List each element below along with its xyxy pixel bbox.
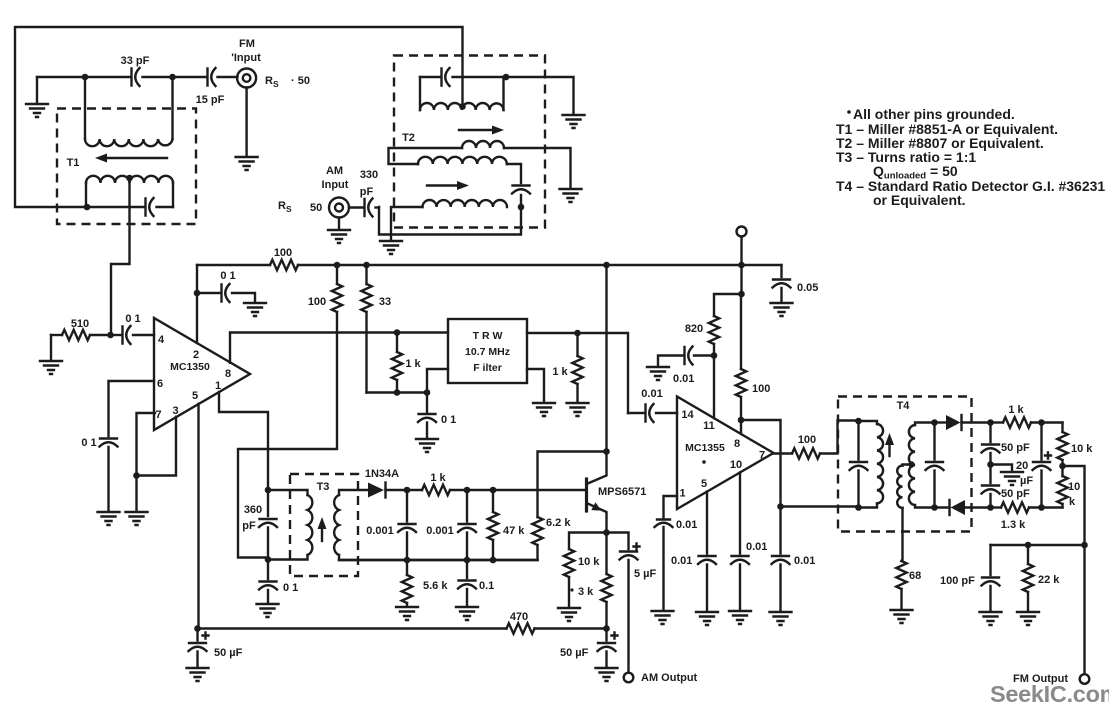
ground (TRW bias bypass) <box>416 439 438 452</box>
ground (0.1 detector) <box>456 607 478 620</box>
node: rail junction A <box>334 262 341 269</box>
wire: AGC bias rail <box>367 391 428 393</box>
wire: T4 secondary top lead <box>915 423 935 426</box>
ground (T4 return bypass) <box>770 612 792 625</box>
ground (T2 middle) <box>560 189 582 202</box>
node: junction pins 3+7 <box>133 472 140 479</box>
svg-text:1.3 k: 1.3 k <box>1001 519 1026 531</box>
svg-text:33 pF: 33 pF <box>121 55 150 67</box>
capacitor (series in T1 primary) <box>146 198 154 216</box>
svg-text:6: 6 <box>157 378 163 390</box>
svg-text:AM: AM <box>326 165 343 177</box>
resistor 100 (output series) <box>792 421 859 459</box>
resistor 3 k <box>570 533 611 629</box>
wire: AM jack to 330 pF <box>349 206 379 208</box>
svg-text:50 µF: 50 µF <box>560 647 589 659</box>
node: junction 3k bottom / 470 / 50uF <box>603 625 610 632</box>
capacitor (parallel with T2 primary) <box>442 68 450 86</box>
svg-text:5: 5 <box>701 478 707 490</box>
wire: T2 coupling upper right to ground <box>504 148 571 188</box>
wire: T1 primary legs <box>86 183 173 207</box>
node: junction T2 primary top right <box>503 74 510 81</box>
node: junction 22k <box>1025 542 1032 549</box>
wire: FM jack to ground <box>245 88 247 157</box>
svg-text:7: 7 <box>759 450 765 462</box>
svg-text:100 pF: 100 pF <box>940 575 975 587</box>
resistor 510 <box>51 318 111 340</box>
node: junction 0.1 <box>464 557 471 564</box>
wire: T3 secondary top lead to diode <box>339 490 368 495</box>
transformer T2 dashed box <box>394 56 545 228</box>
resistor 1 k (detector top) <box>991 404 1063 428</box>
capacitor 0.01 (pin 10) <box>731 541 767 610</box>
capacitor 0 1 (TRW bias bypass) <box>418 393 456 439</box>
svg-text:47 k: 47 k <box>503 525 525 537</box>
svg-text:10 k: 10 k <box>1071 443 1093 455</box>
svg-text:T2: T2 <box>402 132 415 144</box>
svg-text:22 k: 22 k <box>1038 574 1060 586</box>
wire: T1 secondary legs <box>85 77 173 139</box>
wire: to T4 primary bottom <box>781 505 859 507</box>
svg-text:pF: pF <box>242 520 256 532</box>
wire: pin 6 MC1350 to 0.1 <box>109 381 155 436</box>
capacitor (T4 primary tuning) <box>850 421 868 508</box>
wire: supply to transistor collector node <box>605 265 607 452</box>
resistor 5.6 k <box>402 560 449 606</box>
wire: 10k centre to FM output line <box>1063 466 1085 545</box>
diode D3 (ratio detector bottom) <box>935 500 991 515</box>
resistor 1 k (TRW input shunt) <box>392 333 422 393</box>
svg-text:5: 5 <box>192 390 198 402</box>
ground (5.6k) <box>396 607 418 620</box>
diode D1 1N34A <box>365 468 407 498</box>
wire: T4 primary top lead <box>859 421 878 424</box>
wire: pins 3+7 down <box>135 476 137 512</box>
inductor: T4 primary winding <box>877 424 883 504</box>
node: junction 10k centre <box>1059 463 1066 470</box>
wire: pin 8 to TRW filter input <box>230 333 448 363</box>
capacitor 0.05 (supply bypass) <box>773 265 819 302</box>
ground (T2 top) <box>563 115 585 128</box>
node: junction TRW input / 1k <box>394 329 401 336</box>
svg-text:50 µF: 50 µF <box>214 647 243 659</box>
node: junction 360 pF bottom <box>265 556 272 563</box>
ground (AM jack) <box>328 230 350 243</box>
node: collector node <box>603 448 610 455</box>
capacitor 0.001 (first) <box>366 490 416 560</box>
wire: TRW lower-right pin to ground <box>527 369 544 402</box>
inductor: T1 primary winding <box>86 176 173 183</box>
svg-text:10: 10 <box>1068 481 1080 493</box>
wire: T2 top to ground <box>506 77 574 114</box>
svg-text:330: 330 <box>360 169 378 181</box>
svg-text:0 1: 0 1 <box>125 313 140 325</box>
node: junction secondary cap bottom <box>931 504 938 511</box>
resistor 10 k (lower) <box>1057 466 1080 508</box>
svg-text:0.1: 0.1 <box>479 580 494 592</box>
wire: AM jack to ground <box>338 218 340 230</box>
ground (100 pF) <box>980 612 1002 625</box>
svg-text:33: 33 <box>379 296 391 308</box>
ground (pins 3+7) <box>126 512 148 525</box>
svg-text:11: 11 <box>703 420 715 432</box>
svg-text:1: 1 <box>679 488 685 500</box>
node: junction 0.1 / TRW lower pin <box>424 389 431 396</box>
node: junction T4 primary bottom <box>855 504 862 511</box>
arrow: T2 upper tuning arrow (right) <box>459 126 504 135</box>
svg-text:0 1: 0 1 <box>441 414 456 426</box>
capacitor 0.01 (pin 1) <box>655 519 698 610</box>
ground (pin 2 decoupling) <box>244 303 266 316</box>
inductor: T2 coupling winding upper <box>462 141 504 148</box>
svg-text:MPS6571: MPS6571 <box>598 486 646 498</box>
node: junction 5.6k <box>404 557 411 564</box>
ground (20uF centre) <box>991 460 1034 487</box>
capacitor 0.01 (pin 14 coupling) <box>628 388 677 422</box>
capacitor (T4 secondary tuning) <box>926 423 944 508</box>
svg-text:1: 1 <box>215 380 221 392</box>
wire: pin 7 output <box>774 452 793 454</box>
capacitor 0.01 (pin 5) <box>671 555 716 611</box>
svg-text:µF: µF <box>1020 475 1033 487</box>
wire: T2 secondary left leg to ground <box>391 207 423 240</box>
svg-text:510: 510 <box>71 318 89 330</box>
inductor: T2 coupling winding lower <box>418 157 507 164</box>
node: junction pin2/0.1 decoupling <box>194 290 201 297</box>
wire: pin 10 stub <box>739 472 741 553</box>
svg-text:0.01: 0.01 <box>673 373 694 385</box>
node: junction 510 / 0.1 / T1 tap <box>107 332 114 339</box>
wire: to TRW lower-left pin <box>427 369 448 393</box>
wire: pin 2 stub to supply rail <box>196 265 198 343</box>
node: emitter node <box>603 529 610 536</box>
wire: detector to base <box>467 489 587 491</box>
wire: pin 8 stub <box>740 420 742 434</box>
ground (below 360 pF) <box>257 604 279 617</box>
svg-text:8: 8 <box>225 368 231 380</box>
svg-text:1 k: 1 k <box>1008 404 1024 416</box>
diode D2 (ratio detector top) <box>935 415 991 430</box>
resistor 820 <box>685 294 742 356</box>
wire: AM feed loop under T2 <box>379 207 521 235</box>
capacitor 50 uF (right) <box>560 629 618 668</box>
svg-text:0.001: 0.001 <box>426 525 454 537</box>
resistor 22 k <box>1023 545 1060 611</box>
connector: FM Output <box>1013 673 1089 685</box>
node: junction T4 primary top <box>855 418 862 425</box>
wire: TRW output <box>527 333 628 413</box>
capacitor 330 pF <box>365 199 373 217</box>
ground (FM jack) <box>236 157 258 170</box>
capacitor (T2 secondary trimmer) <box>512 186 530 194</box>
capacitor 50 pF (lower) <box>982 465 1031 508</box>
wire: FM output line down <box>1083 545 1085 674</box>
transformer T4 dashed box <box>838 397 972 532</box>
arrow: T1 tuning arrow (left) <box>95 154 167 163</box>
svg-text:10.7 MHz: 10.7 MHz <box>465 346 510 358</box>
svg-text:7: 7 <box>155 409 161 421</box>
node: junction secondary cap top <box>931 419 938 426</box>
node: junction T4 return / 0.01 <box>777 503 784 510</box>
filter block TRW 10.7 MHz <box>448 319 527 383</box>
wire: pin 5 MC1350 down <box>197 404 199 629</box>
svg-text:MC1355: MC1355 <box>685 442 725 454</box>
svg-text:3: 3 <box>172 405 178 417</box>
svg-text:5.6 k: 5.6 k <box>423 580 448 592</box>
capacitor 0 1 (pin 6) <box>81 437 117 511</box>
resistor 33 <box>361 265 391 393</box>
wire: T4 secondary bottom lead <box>915 505 935 508</box>
connector: AM Input jack <box>278 165 378 218</box>
ground (pin 1) <box>652 611 674 624</box>
wire: T4 primary bottom lead <box>859 504 878 508</box>
svg-text:1 k: 1 k <box>430 472 446 484</box>
node: junction detector top <box>987 419 994 426</box>
arrow: T2 lower tuning arrow (right) <box>427 181 469 190</box>
resistor 470 <box>507 611 535 634</box>
svg-text:6.2 k: 6.2 k <box>546 517 571 529</box>
node: junction 20uF top <box>1038 419 1045 426</box>
svg-text:100: 100 <box>308 296 326 308</box>
node: T2 primary centre tap <box>459 103 466 110</box>
ground (pin 5) <box>696 612 718 625</box>
svg-text:0.01: 0.01 <box>746 541 767 553</box>
ground (0.05) <box>771 303 793 316</box>
svg-text:2: 2 <box>193 349 199 361</box>
wire: emitter to 10k <box>569 533 607 550</box>
svg-text:820: 820 <box>685 323 703 335</box>
svg-text:MC1350: MC1350 <box>170 361 210 373</box>
inductor: T4 secondary winding <box>909 425 915 505</box>
capacitor 50 uF (left) <box>189 629 243 668</box>
resistor 100 (pin 8 feed) <box>736 294 771 420</box>
svg-text:100: 100 <box>798 434 816 446</box>
svg-text:T1: T1 <box>67 157 80 169</box>
watermark: SeekIC.com <box>990 681 1109 707</box>
capacitor 50 pF (upper) <box>982 423 1031 465</box>
terminal: V+ supply <box>737 227 747 266</box>
svg-text:50 pF: 50 pF <box>1001 488 1030 500</box>
svg-text:8: 8 <box>734 438 740 450</box>
ground (pin 11 bypass) <box>647 367 669 380</box>
resistor 6.2 k <box>532 517 571 560</box>
resistor 100 (supply rail series) <box>270 247 298 270</box>
op-amp U2 MC1355 <box>677 397 774 510</box>
ground (510 input) <box>40 335 62 374</box>
node: junction 20uF bottom <box>1038 504 1045 511</box>
svg-text:T R W: T R W <box>473 330 503 342</box>
capacitor 0.01 (pin 11 bypass) <box>658 347 714 386</box>
wire: pin 1 stub <box>664 496 678 518</box>
svg-text:50: 50 <box>310 202 322 214</box>
wire: collector node to 6.2k <box>538 452 607 518</box>
svg-text:or Equivalent.: or Equivalent. <box>873 192 966 208</box>
svg-text:470: 470 <box>510 611 528 623</box>
wire: T2 coupling lower right to trimmer <box>507 164 521 183</box>
resistor 10 k (emitter) <box>564 549 600 607</box>
svg-text:· 50: · 50 <box>291 75 310 87</box>
wire: emitter to 5 uF <box>607 533 629 550</box>
node: junction T1 primary left leg <box>84 204 91 211</box>
node: junction 50pF centre <box>987 461 994 468</box>
node: junction FM output line <box>1081 542 1088 549</box>
svg-text:AM Output: AM Output <box>641 672 698 684</box>
wire: T2 coupling left link <box>389 148 463 164</box>
svg-text:0.001: 0.001 <box>366 525 394 537</box>
svg-text:1 k: 1 k <box>405 358 421 370</box>
svg-text:100: 100 <box>752 383 770 395</box>
svg-text:0.01: 0.01 <box>641 388 662 400</box>
svg-text:k: k <box>1069 496 1076 508</box>
inductor: T2 primary winding <box>420 103 504 110</box>
connector: AM Output <box>624 672 698 684</box>
node: junction detector bottom <box>987 504 994 511</box>
svg-text:10 k: 10 k <box>578 556 600 568</box>
node: junction 360 pF top / T3 <box>265 487 272 494</box>
inductor: T3 primary winding <box>308 495 313 555</box>
svg-text:100: 100 <box>274 247 292 259</box>
capacitor 33 pF <box>121 55 150 86</box>
wire: T1 primary bottom with series capacitor <box>87 206 173 208</box>
wire: T2 primary top link <box>420 76 506 78</box>
svg-text:3 k: 3 k <box>578 586 594 598</box>
node: junction on FM rail left <box>82 74 89 81</box>
capacitor 0 1 (below 360 pF) <box>259 560 298 604</box>
wire: pin 7 MC1350 to ground <box>137 413 156 476</box>
svg-text:0.01: 0.01 <box>794 555 815 567</box>
transformer T3 dashed box <box>290 474 358 576</box>
node: rail junction B <box>363 262 370 269</box>
svg-text:FM: FM <box>239 38 255 50</box>
svg-text:0 1: 0 1 <box>283 582 298 594</box>
wire: detector ground rail <box>339 559 538 561</box>
svg-text:T3: T3 <box>317 481 330 493</box>
svg-text:10: 10 <box>730 459 742 471</box>
svg-text:0 1: 0 1 <box>220 270 235 282</box>
svg-text:14: 14 <box>681 409 694 421</box>
wire: pin 8 node to T4 return <box>741 420 781 507</box>
wire: 100 load return to 360 pF node <box>238 312 337 558</box>
inductor: T1 secondary winding <box>85 139 173 146</box>
resistor 68 <box>896 561 921 609</box>
transistor Q1 MPS6571 <box>587 452 647 533</box>
ground (TRW case) <box>533 403 555 416</box>
node: junction pin 8 <box>738 417 745 424</box>
node: junction 47k top <box>490 487 497 494</box>
wire: T3 secondary bottom to detector rail <box>339 555 538 560</box>
inductor: T4 tertiary winding <box>897 466 902 508</box>
ground (left of 33 pF) <box>26 77 48 117</box>
svg-text:pF: pF <box>360 186 374 198</box>
svg-text:0 1: 0 1 <box>81 437 96 449</box>
node: T2 secondary right junction <box>518 204 525 211</box>
ground (TRW output load) <box>567 403 589 416</box>
wire: FM input rail <box>37 76 238 78</box>
connector: FM Input jack <box>231 38 310 89</box>
node: T1 primary centre tap <box>126 175 133 182</box>
wire: AGC bottom rail <box>198 627 607 629</box>
svg-text:0.01: 0.01 <box>671 555 692 567</box>
wire: pin 3 MC1350 <box>137 417 177 476</box>
svg-text:0.05: 0.05 <box>797 282 818 294</box>
svg-text:15 pF: 15 pF <box>196 94 225 106</box>
node: rail junction at collector feed <box>603 262 610 269</box>
wire: pin 5 stub <box>706 492 708 554</box>
ground (50uF left) <box>187 668 209 681</box>
capacitor 5 uF (AM output coupling) <box>620 544 657 673</box>
svg-text:F ilter: F ilter <box>473 362 502 374</box>
inductor: T3 secondary winding <box>334 495 339 555</box>
node: junction 0.001 second <box>464 487 471 494</box>
capacitor 0.1 (detector) <box>458 560 494 606</box>
ground (68) <box>891 610 913 623</box>
wire: T3 primary top lead <box>268 490 308 495</box>
wire: trimmer to bottom node <box>520 195 522 207</box>
note: footnote and transformer list <box>836 106 1105 208</box>
ground (pin 10) <box>729 611 751 624</box>
wire: tertiary top to secondary centre tap <box>903 465 912 466</box>
capacitor 15 pF <box>196 68 225 106</box>
resistor 47 k <box>488 490 525 560</box>
wire: pin 11 stub <box>713 356 715 419</box>
wire: pin 1 MC1350 to detector node <box>219 392 268 490</box>
resistor 1 k (detector series) <box>407 472 467 495</box>
node: junction on FM rail right <box>169 74 176 81</box>
svg-text:T4: T4 <box>897 400 911 412</box>
ground (50uF right) <box>596 668 618 681</box>
svg-text:50 pF: 50 pF <box>1001 442 1030 454</box>
node: junction 820 / pin 11 <box>711 352 718 359</box>
ground (22k) <box>1017 612 1039 625</box>
op-amp U1 MC1350 <box>154 318 250 430</box>
wire: V+ supply rail <box>197 264 782 266</box>
inductor: T2 secondary winding <box>423 200 507 207</box>
resistor 100 (pin 1 load) <box>308 265 342 312</box>
wire: T3 primary bottom lead <box>268 555 308 560</box>
node: junction 50uF left <box>194 625 201 632</box>
node: T4 secondary centre tap <box>908 461 914 467</box>
node: junction TRW output / 1k <box>574 330 581 337</box>
wire: T2 primary legs up <box>420 77 504 110</box>
svg-text:'Input: 'Input <box>231 52 261 64</box>
capacitor 360 pF <box>242 490 277 560</box>
svg-text:SeekIC.com: SeekIC.com <box>990 681 1109 707</box>
arrow: T3 tuning arrow (up) <box>318 517 327 541</box>
wire: de-emphasis rail <box>991 544 1085 546</box>
svg-text:5 µF: 5 µF <box>634 568 657 580</box>
node: junction 1k bottom <box>394 389 401 396</box>
ground (pin 6) <box>98 512 120 525</box>
ground (10k emitter) <box>558 608 580 621</box>
resistor 1 k (TRW output load) <box>552 333 582 402</box>
ground (T2 secondary) <box>380 241 402 254</box>
capacitor 0.1 (input coupling) <box>111 313 155 344</box>
wire: V+ down to MC1355 feed <box>740 265 742 294</box>
svg-text:All other pins grounded.: All other pins grounded. <box>853 106 1015 122</box>
capacitor 0.001 (second) <box>426 490 476 560</box>
svg-text:68: 68 <box>909 570 921 582</box>
svg-text:20: 20 <box>1016 460 1028 472</box>
svg-text:Input: Input <box>322 179 349 191</box>
wire: tertiary bottom to 68 <box>902 508 903 561</box>
svg-text:0.01: 0.01 <box>676 519 697 531</box>
svg-text:360: 360 <box>244 504 262 516</box>
capacitor 0 1 (pin 2 decoupling) <box>197 270 255 302</box>
resistor 10 k (upper) <box>1057 423 1093 467</box>
node: junction 820/100 feed <box>738 291 745 298</box>
wire: T1 centre tap down to MC1350 input <box>111 178 130 335</box>
node: rail junction V+ <box>738 262 745 269</box>
